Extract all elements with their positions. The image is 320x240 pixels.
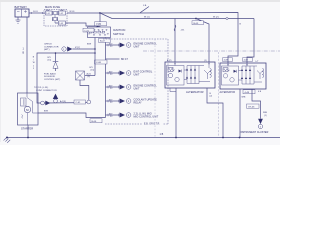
svg-text:B-22: B-22 [100,41,106,43]
svg-text:C-01: C-01 [76,102,82,104]
destination arrow instrument cluster [258,119,263,129]
wire starter ground [27,125,29,138]
svg-text:MAIN FUSE: MAIN FUSE [45,5,60,9]
svg-text:C-08: C-08 [96,62,102,64]
svg-text:1: 1 [33,65,34,67]
alternator 2 box [220,58,266,89]
wire alternator2 charge lamp out [239,89,241,138]
svg-text:B/Y: B/Y [109,71,113,73]
svg-text:STARTER: STARTER [21,127,33,131]
wire ignition IG out (bus) [105,38,107,118]
source arrow up joint connector [53,94,58,103]
svg-text:W/B: W/B [263,112,268,114]
svg-text:E.B. OR E.T.R.: E.B. OR E.T.R. [144,124,160,126]
wire branch 6 [106,114,120,116]
svg-text:W 01: W 01 [70,11,76,13]
page background [0,0,280,145]
wire from starter to MIO feed [38,113,106,118]
svg-text:UNIT: UNIT [134,88,140,91]
scan edge left [0,2,1,142]
node ground joints [27,137,29,139]
wire check connector to B/W bus [72,48,95,50]
svg-text:CONTROL (M/T): CONTROL (M/T) [44,79,61,81]
wire second bus [100,13,254,19]
boundary dash-dot line [143,50,280,52]
svg-text:UNIT: UNIT [134,74,140,77]
wire alternator1 ground [175,88,177,138]
wire to fuse [85,75,95,77]
svg-text:(2): (2) [210,96,213,98]
svg-text:B/W: B/W [87,44,91,46]
wire branch 1 [106,44,120,46]
svg-text:CONNECTOR: CONNECTOR [44,46,59,48]
svg-text:B/Y: B/Y [109,43,113,45]
svg-text:JOINT CONNECTOR: JOINT CONNECTOR [36,90,57,92]
svg-text:TO 2.2L (L.W.): TO 2.2L (L.W.) [34,87,48,89]
svg-text:GY-06: GY-06 [248,106,255,108]
svg-text:J.B.: J.B. [181,30,185,32]
wire slant to left alternator S [196,19,209,63]
fusible link squiggle [174,25,176,31]
wire branch 3 [106,72,120,74]
fuse engine 15A [76,71,85,80]
connector fuse2 [59,21,66,25]
destination arrow cooling fan relay [108,99,157,105]
svg-text:FUEL BACK: FUEL BACK [44,72,56,75]
svg-text:(1): (1) [264,115,267,117]
connector label B-05 [192,21,204,25]
alternator 1 internals [167,63,212,85]
alternator 2 internals [222,64,264,85]
svg-text:4-48: 4-48 [245,92,250,94]
svg-text:ALTERNATOR: ALTERNATOR [220,91,236,94]
battery G1 [15,9,29,17]
svg-text:4?(Y): 4?(Y) [75,47,80,49]
svg-text:Y-05: Y-05 [96,24,102,26]
svg-text:W: W [33,62,35,64]
svg-text:(15): (15) [91,70,95,72]
wire alternator2 B down [251,89,253,96]
wire ignition ACC down [94,49,96,76]
svg-text:1-01: 1-01 [46,13,50,15]
svg-text:1-02: 1-02 [59,13,63,15]
svg-text:B/Y: B/Y [109,99,113,101]
wire ticks [30,12,32,14]
connector in main fuse [46,11,53,15]
svg-text:(F): (F) [88,76,91,78]
starter M1 [18,93,39,125]
ground battery [16,20,21,23]
svg-text:SOLENOID: SOLENOID [44,76,56,78]
svg-text:W/B: W/B [242,97,247,99]
fuse 80A [52,18,57,21]
wire battery cable to starter [26,17,28,93]
wire drop to left alternator B [174,19,176,63]
wire branch 5 [106,100,120,102]
fuse MAIN 100A [53,11,59,14]
connector label C-08 [95,60,108,64]
wire branch 2 [106,58,120,60]
fuse 2 branch [54,15,56,18]
svg-text:BATTERY: BATTERY [15,5,28,9]
svg-text:(15): (15) [48,60,52,62]
source arrow from check connector [62,47,73,52]
wire to instrument cluster [252,96,261,119]
connector out main fuse [59,11,66,15]
diode D1 [53,52,59,71]
svg-text:B/Y: B/Y [109,85,113,87]
terminal circle joint end [87,100,91,104]
svg-text:UNIT: UNIT [134,46,140,49]
wire fuse to junction [67,12,100,14]
svg-text:B-05: B-05 [194,23,200,25]
node junction left alternator feed [195,18,197,20]
connector label B-06 [90,119,102,123]
svg-text:A (2): A (2) [167,59,172,62]
svg-text:(M/T): (M/T) [44,49,50,51]
ignition switch S1 [88,27,111,38]
wire fuse2 to ignition drop [55,22,59,24]
svg-text:C-05: C-05 [84,30,89,32]
svg-text:SWITCH: SWITCH [113,32,124,36]
svg-text:RELAY: RELAY [134,102,143,105]
svg-text:1-03: 1-03 [59,23,63,25]
svg-text:(1): (1) [204,60,207,62]
svg-text:8D 47: 8D 47 [121,58,128,61]
svg-text:B 01: B 01 [33,11,38,13]
svg-text:B/W: B/W [44,110,48,112]
ground symbol left [4,137,11,143]
svg-text:IGNITION: IGNITION [113,28,125,32]
svg-text:INSTRUMENT CLUSTER: INSTRUMENT CLUSTER [240,131,269,134]
wire branch to joint column [37,53,95,103]
svg-text:B/Y: B/Y [109,113,113,115]
svg-text:W (1): W (1) [144,16,150,18]
wire ignition ACC out [94,38,96,50]
wire main bus top right [100,13,238,64]
connector label C-05 on ignition switch [83,28,94,32]
connector label GY-06 [247,104,260,108]
main fuse block dashed box [44,10,67,27]
svg-text:W (2): W (2) [213,16,219,18]
ground bus [6,137,280,139]
destination arrow E/AT control unit [108,71,153,77]
svg-text:B-06: B-06 [92,121,98,123]
scan edge top [0,0,280,2]
connector label B-22 [99,38,111,42]
svg-text:5: 5 [33,68,34,70]
wire fuse down [80,80,89,100]
wire to right alternator L [247,19,254,64]
node [94,48,96,50]
wire fuse2 down [54,21,56,23]
fusible link J.B. [140,7,149,13]
node junction ignition feed [99,12,101,14]
wire drop to ignition switch [99,13,101,27]
wire battery to main fuse [29,12,45,14]
dashed harness box ECU area [103,39,168,124]
connector label Y-05 [95,22,107,26]
destination arrow engine control unit 2 [108,85,157,91]
source arrow left end [41,101,51,106]
wire alternator1 B output [207,88,223,138]
svg-text:J.B.: J.B. [143,5,147,7]
connector label C-01 [74,100,86,104]
wire branch 4 [106,86,120,88]
wire battery negative to ground [17,17,19,20]
destination arrow engine control unit 1 [108,43,157,49]
alternator 1 box [165,59,215,88]
connector circle [226,17,228,19]
svg-text:CHECK: CHECK [44,44,52,46]
boundary dashed line vertical mid [154,39,156,137]
svg-text:ALTERNATOR: ALTERNATOR [186,90,204,94]
svg-text:1 B: 1 B [160,133,164,136]
wire horizontal joint [44,102,87,104]
svg-text:A-2(F): A-2(F) [60,100,66,103]
destination arrow MIO control unit [108,113,159,119]
boundary dashed separator between alternators [218,52,220,137]
